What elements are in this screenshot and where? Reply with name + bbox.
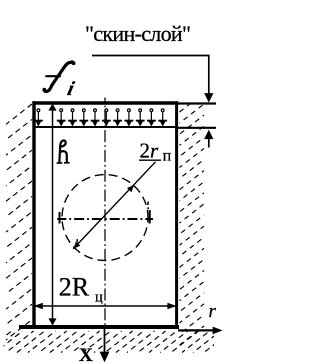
svg-text:2R: 2R	[59, 273, 90, 302]
svg-text:r: r	[150, 139, 159, 163]
svg-text:ц: ц	[95, 290, 103, 306]
svg-text:п: п	[163, 147, 172, 164]
svg-text:2: 2	[140, 139, 151, 163]
svg-text:"скин-слой": "скин-слой"	[85, 21, 191, 46]
svg-text:X: X	[79, 345, 93, 364]
svg-text:r: r	[209, 301, 217, 322]
